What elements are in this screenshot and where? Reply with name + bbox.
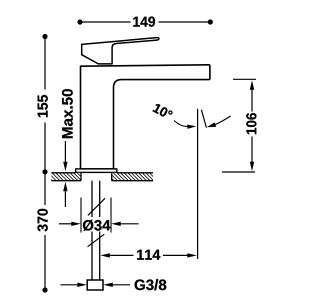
- pipe break slash lower: [88, 234, 105, 247]
- dimension 149: [77, 17, 213, 27]
- dimension 155: [38, 34, 48, 175]
- angle 10 degrees leader and arcs: [174, 116, 231, 129]
- angle 10 degrees label: [153, 104, 173, 116]
- dimension 370: [37, 172, 47, 293]
- deck hatch right: [112, 173, 153, 181]
- pipe break slash upper: [88, 198, 105, 215]
- supply pipe: [92, 181, 100, 280]
- dimension diameter 34: [59, 198, 139, 233]
- deck hatch left: [51, 173, 81, 181]
- dimension 106: [222, 79, 256, 172]
- base flange: [76, 169, 117, 173]
- G3/8 fitting: [87, 280, 103, 290]
- handle lever: [82, 38, 159, 64]
- faucet body with spout: [81, 65, 210, 169]
- angle 10 degrees tilted line: [201, 110, 206, 128]
- dimension Max.50: [62, 89, 73, 207]
- water stream axis line: [197, 109, 199, 259]
- dimension 114: [100, 250, 197, 260]
- label G3/8: [61, 279, 167, 290]
